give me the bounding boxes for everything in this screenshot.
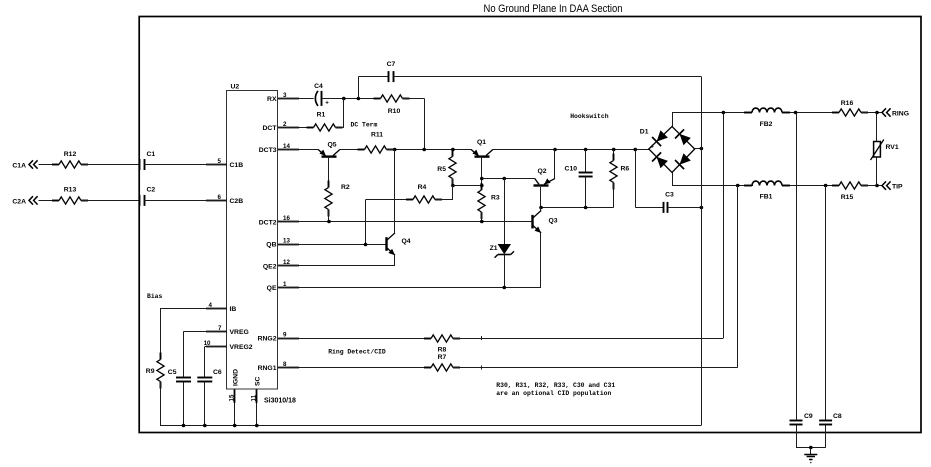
- wire C2A to R13: [39, 200, 60, 202]
- svg-text:RNG2: RNG2: [258, 336, 277, 343]
- capacitor C2: [140, 187, 156, 206]
- U2 pin 14 (DCT3): [259, 143, 299, 154]
- wire R16 to RING connector: [861, 111, 882, 115]
- svg-text:Q1: Q1: [477, 139, 486, 146]
- resistor R7: [424, 354, 460, 371]
- text Ring Detect/CID: [328, 348, 386, 355]
- wire IB pin4 to R9: [160, 309, 227, 360]
- capacitor C6: [197, 369, 222, 382]
- svg-text:DCT2: DCT2: [259, 219, 277, 226]
- svg-text:R13: R13: [64, 187, 77, 194]
- wire C2 to U2 pin 6: [144, 200, 227, 202]
- svg-text:+: +: [325, 100, 329, 107]
- svg-text:Q2: Q2: [537, 168, 546, 175]
- svg-text:D1: D1: [640, 129, 649, 136]
- wire Q2 collector riser to hookswitch line: [554, 149, 556, 178]
- wire DCT3 pin14 to Q5: [278, 149, 318, 151]
- node RING connector: [882, 108, 909, 117]
- svg-text:C2A: C2A: [12, 198, 26, 205]
- resistor R6: [610, 149, 630, 207]
- svg-text:Ring Detect/CID: Ring Detect/CID: [328, 348, 386, 355]
- resistor R5: [437, 149, 456, 187]
- wire IGND pin15 to bias rail: [234, 403, 236, 425]
- svg-text:Si3010/18: Si3010/18: [264, 398, 296, 405]
- svg-text:13: 13: [283, 237, 290, 244]
- U2 pin 10 (VREG2): [204, 340, 253, 351]
- resistor R4: [366, 184, 453, 203]
- resistor R2: [325, 181, 350, 217]
- svg-text:2: 2: [283, 121, 287, 128]
- svg-text:C2B: C2B: [230, 198, 244, 205]
- svg-text:6: 6: [218, 194, 222, 201]
- capacitor C5: [168, 369, 191, 382]
- svg-text:R6: R6: [621, 165, 630, 172]
- resistor R9: [146, 353, 164, 389]
- svg-text:Q4: Q4: [402, 238, 411, 245]
- svg-text:FB1: FB1: [760, 194, 773, 201]
- wire R9 to bias rail: [160, 382, 162, 426]
- svg-text:R15: R15: [841, 194, 854, 201]
- resistor R15: [832, 182, 868, 201]
- wire R2 to DCT2 line: [328, 210, 330, 222]
- svg-text:7: 7: [218, 325, 222, 332]
- wire R5 bottom to Q1 base node: [453, 185, 482, 187]
- svg-text:Hookswitch: Hookswitch: [570, 113, 609, 120]
- wire C1A to R12: [39, 164, 60, 166]
- U2 pin 5 (C1B): [206, 158, 243, 169]
- svg-text:RNG1: RNG1: [258, 365, 277, 372]
- svg-text:R9: R9: [146, 368, 155, 375]
- svg-text:C1: C1: [147, 151, 156, 158]
- svg-text:C5: C5: [168, 369, 177, 376]
- svg-text:C10: C10: [565, 165, 578, 172]
- svg-text:QE2: QE2: [263, 263, 277, 270]
- wire DCT pin2 to R1: [278, 127, 314, 129]
- svg-text:No Ground Plane In DAA Section: No Ground Plane In DAA Section: [484, 3, 623, 15]
- capacitor C3: [664, 192, 675, 213]
- svg-text:14: 14: [283, 143, 290, 150]
- wire R7 to TIP line riser: [453, 186, 738, 370]
- text optional CID note: [496, 382, 615, 397]
- svg-text:+: +: [650, 144, 654, 151]
- junction RNG1 riser on TIP line: [736, 184, 740, 188]
- capacitor C1: [140, 151, 156, 170]
- diode bridge D1: [640, 127, 695, 173]
- U2 pin 4 (IB): [206, 302, 236, 313]
- resistor R3: [478, 183, 500, 219]
- U2 pin 2 (DCT): [263, 121, 299, 132]
- resistor R8: [424, 335, 460, 354]
- svg-text:C3: C3: [665, 192, 674, 199]
- svg-text:C2: C2: [147, 187, 156, 194]
- title: No Ground Plane In DAA Section: [484, 3, 623, 15]
- svg-text:Q5: Q5: [327, 142, 336, 149]
- node TIP connector: [882, 181, 903, 190]
- wire Q3 collector to rail: [540, 207, 542, 210]
- wire Q1 base down with junctions: [480, 157, 484, 190]
- capacitor C8: [819, 186, 842, 448]
- wire ground riser x=701: [701, 77, 703, 426]
- svg-text:5: 5: [218, 158, 222, 165]
- svg-text:R16: R16: [841, 100, 854, 107]
- wire FB1 to R15: [790, 184, 839, 188]
- svg-text:R4: R4: [418, 184, 427, 191]
- wire Q2 emitter down to rail: [540, 187, 542, 207]
- resistor R16: [832, 100, 868, 116]
- wire Q1 node to Q2 base: [482, 177, 535, 181]
- svg-text:8: 8: [283, 361, 287, 368]
- wire R1 up to RX node: [336, 98, 344, 127]
- U2 pin 6 (C2B): [206, 194, 243, 205]
- wire C4 to R10 with junctions: [322, 97, 381, 101]
- wire C7 line right to far rail: [394, 76, 702, 78]
- svg-text:DCT: DCT: [263, 125, 278, 132]
- wire C3 to ground riser: [668, 206, 704, 210]
- svg-text:Z1: Z1: [490, 245, 498, 252]
- text Bias: [147, 293, 163, 300]
- U2 pin 8 (RNG1): [258, 361, 299, 372]
- wire riser to C7 line: [358, 77, 360, 99]
- svg-text:VREG: VREG: [230, 329, 249, 336]
- wire drop to C3 line: [635, 149, 663, 207]
- wire R3 to DCT2 line: [481, 212, 483, 222]
- transistor Q5: [318, 142, 340, 157]
- svg-text:U2: U2: [231, 84, 240, 91]
- wire C7 line left: [358, 76, 388, 78]
- U2 pin 13 (QB): [266, 237, 299, 248]
- wire Q3 emitter down to QE line: [540, 233, 542, 288]
- svg-text:Bias: Bias: [147, 293, 163, 300]
- wire QE pin1 to Q3 emitter: [278, 286, 541, 290]
- svg-text:RING: RING: [892, 111, 909, 118]
- wire VREG2 pin10 to C6: [205, 347, 228, 378]
- capacitor C9: [790, 113, 813, 448]
- resistor R12: [52, 151, 88, 168]
- wire C1 to U2 pin 5: [144, 164, 227, 166]
- U2 pin 3 (RX): [267, 92, 299, 103]
- wire R10 to DCT3 node: [403, 98, 425, 149]
- transistor Q1: [471, 139, 493, 157]
- svg-text:C1A: C1A: [12, 162, 26, 169]
- svg-text:9: 9: [283, 331, 287, 338]
- wire RNG1 pin8 to R7: [278, 367, 431, 369]
- svg-text:are an optional CID population: are an optional CID population: [496, 390, 611, 397]
- wire Q4 emitter to QE2 pin12: [278, 255, 395, 266]
- wire hookswitch bottom rail: [539, 206, 614, 210]
- capacitor C10: [565, 149, 593, 207]
- wire C5 to bias rail: [183, 382, 185, 426]
- resistor R10: [374, 95, 410, 115]
- svg-text:R12: R12: [64, 151, 77, 158]
- svg-text:10: 10: [204, 340, 211, 347]
- svg-text:TIP: TIP: [892, 184, 903, 191]
- wire Q1 to D1 bridge with junctions: [493, 148, 649, 152]
- U2 pin 15 (IGND): [228, 369, 239, 403]
- svg-text:C7: C7: [387, 61, 396, 68]
- wire R12 to C1: [81, 164, 140, 166]
- svg-text:4: 4: [209, 302, 213, 309]
- U2 pin 1 (QE): [267, 281, 299, 292]
- svg-text:R2: R2: [341, 184, 350, 191]
- svg-text:3: 3: [283, 92, 287, 99]
- ground: [796, 446, 826, 463]
- resistor R11: [358, 132, 394, 154]
- capacitor C7: [387, 61, 396, 82]
- svg-text:VREG2: VREG2: [230, 344, 253, 351]
- svg-text:IGND: IGND: [233, 369, 240, 386]
- transistor Q2: [534, 168, 556, 186]
- svg-text:C4: C4: [314, 83, 323, 90]
- svg-text:SC: SC: [255, 376, 262, 386]
- svg-text:QE: QE: [267, 285, 277, 292]
- text Hookswitch: [570, 113, 609, 120]
- wire QB pin13 to Q4 base: [278, 243, 386, 247]
- svg-text:C1B: C1B: [230, 162, 244, 169]
- U2 pin 16 (DCT2): [259, 215, 299, 226]
- svg-text:QB: QB: [266, 242, 276, 249]
- svg-text:Q3: Q3: [549, 218, 558, 225]
- svg-text:R30, R31, R32, R33, C30 and C3: R30, R31, R32, R33, C30 and C31: [496, 382, 615, 389]
- wire DCT2 pin16 to Q3 base with junctions: [278, 220, 533, 224]
- svg-text:11: 11: [250, 394, 257, 401]
- U2 pin 12 (QE2): [263, 259, 299, 270]
- svg-text:RX: RX: [267, 96, 277, 103]
- U2 pin 11 (SC): [250, 376, 261, 403]
- svg-text:C6: C6: [213, 369, 222, 376]
- wire R11 to Q1 with junctions: [387, 148, 472, 152]
- svg-text:15: 15: [228, 394, 235, 401]
- DAA section border box: [139, 17, 921, 433]
- wire bias/IGND rail: [160, 424, 701, 428]
- svg-text:R11: R11: [371, 132, 383, 139]
- svg-text:R10: R10: [388, 108, 401, 115]
- svg-text:R5: R5: [437, 166, 446, 173]
- svg-text:R7: R7: [438, 354, 447, 361]
- wire C6 to bias rail: [204, 382, 206, 426]
- wire R15 to TIP connector: [861, 184, 882, 188]
- wire VREG pin7 to C5: [184, 331, 228, 377]
- wire D1 right to ground riser: [695, 147, 704, 151]
- transistor Q3: [533, 211, 558, 233]
- node C2A input connector: [12, 196, 37, 205]
- wire D1 top to RING line: [672, 113, 752, 127]
- svg-text:R1: R1: [317, 112, 326, 119]
- wire R8 to RING line riser: [453, 113, 724, 341]
- svg-text:R8: R8: [438, 347, 447, 354]
- svg-text:RV1: RV1: [886, 144, 899, 151]
- wire Q4 collector riser: [394, 149, 396, 232]
- svg-text:R3: R3: [491, 195, 500, 202]
- capacitor C4 (polarized): [314, 83, 329, 107]
- wire SC pin11 to bias rail: [256, 403, 258, 425]
- text DC Term: [351, 122, 378, 129]
- svg-text:IB: IB: [230, 306, 237, 313]
- svg-text:DC Term: DC Term: [351, 122, 378, 129]
- svg-text:1: 1: [283, 281, 287, 288]
- wire RX pin3 to C4: [278, 98, 314, 100]
- wire D1 bottom to TIP line: [672, 173, 753, 186]
- wire R4 left leg down to QB line: [365, 200, 367, 244]
- svg-text:DCT3: DCT3: [259, 147, 277, 154]
- U2 pin 7 (VREG): [206, 325, 249, 336]
- svg-text:C9: C9: [804, 413, 813, 420]
- junction RNG2 riser on RING line: [722, 111, 726, 115]
- IC U2 Si3010/18 body: [227, 84, 297, 405]
- inductor FB2: [744, 108, 790, 128]
- resistor R1: [307, 112, 343, 132]
- transistor Q4: [386, 233, 410, 255]
- varistor RV1: [871, 113, 899, 186]
- wire FB2 to R16: [790, 111, 839, 115]
- inductor FB1: [744, 181, 790, 200]
- resistor R13: [52, 187, 88, 205]
- node C1A input connector: [12, 160, 37, 169]
- wire RNG2 pin9 to R8: [278, 338, 431, 340]
- svg-text:FB2: FB2: [760, 121, 773, 128]
- wire Q5 base down: [328, 157, 330, 188]
- U2 pin 9 (RNG2): [258, 331, 299, 342]
- wire Q5 to R11: [340, 149, 365, 151]
- svg-text:C8: C8: [833, 413, 842, 420]
- wire R13 to C2: [81, 200, 140, 202]
- zener Z1: [490, 178, 514, 287]
